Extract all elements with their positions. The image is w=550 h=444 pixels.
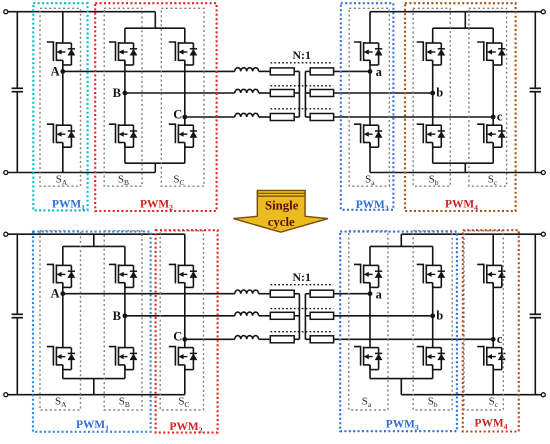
node B (junction dot) (top circuit) [123, 91, 128, 96]
wire: primary winding to primary star point (top circuit) [294, 116, 299, 118]
node C (junction dot) (top circuit) [182, 115, 187, 120]
wire: leg a (top circuit) [369, 12, 371, 43]
dashed box PWM4 group (top circuit) [405, 3, 516, 211]
wire: leg A (top circuit) [62, 12, 64, 43]
capacitor: left DC-link C (bottom circuit) [16, 234, 18, 314]
wire: secondary star point to secondary winding (top circuit) [305, 92, 310, 94]
coupling dotted line phase B (bottom circuit) [271, 308, 334, 310]
terminal: left DC- (bottom circuit) [4, 393, 8, 397]
transformer primary winding phase C (bottom circuit) [270, 336, 294, 343]
wire: DC- rail left (top circuit) [8, 172, 156, 174]
svg-text:A: A [51, 287, 60, 301]
node A (junction dot) (bottom circuit) [60, 291, 65, 296]
inductor: phase C series L (top circuit) [235, 113, 259, 117]
MOSFET S_c upper with body diode (bottom circuit) [477, 264, 506, 287]
wire: secondary star point to secondary winding (bottom circuit) [305, 338, 310, 340]
inductor: phase B series L (bottom circuit) [235, 312, 259, 316]
MOSFET S_b upper with body diode (bottom circuit) [417, 264, 446, 287]
transformer secondary winding phase c (bottom circuit) [310, 336, 333, 343]
svg-text:B: B [113, 86, 121, 100]
MOSFET S_a upper with body diode (bottom circuit) [354, 264, 383, 287]
wire: primary star point (top circuit) [298, 71, 300, 117]
svg-text:a: a [376, 65, 383, 79]
transformer secondary winding phase a (top circuit) [310, 68, 333, 75]
dashed box switch pair S_b (bottom circuit) [413, 231, 452, 410]
MOSFET S_B lower with body diode (top circuit) [109, 124, 137, 147]
MOSFET S_A lower with body diode (bottom circuit) [47, 347, 76, 370]
wire: phase A from node to inductor (bottom circuit) [63, 293, 235, 295]
wire: leg b (bottom circuit) [432, 246, 434, 265]
wire: primary winding to primary star point (bottom circuit) [294, 338, 299, 340]
wire: leg B (top circuit) [124, 28, 126, 43]
wire: legs b-c top join (top circuit) [433, 27, 494, 29]
dashed box PWM3 group (top circuit) [341, 3, 394, 210]
coupling dotted line phase C (top circuit) [271, 108, 334, 110]
wire: legs b-c bottom join (top circuit) [433, 162, 494, 164]
svg-text:Single: Single [265, 199, 299, 213]
wire: inductor to primary winding (bottom circuit) [259, 338, 271, 340]
capacitor: left DC-link C (top circuit) [16, 12, 18, 89]
transformer secondary winding phase b (top circuit) [310, 90, 333, 97]
terminal: right DC- (top circuit) [541, 171, 545, 175]
capacitor: right DC-link C (bottom circuit) [534, 234, 536, 314]
wire: secondary winding to node a (top circuit) [334, 70, 370, 72]
dashed box switch pair S_C (top circuit) [161, 8, 204, 186]
wire: DC+ rail left (bottom circuit) [8, 233, 185, 235]
svg-text:PWM2: PWM2 [169, 421, 202, 435]
node b (junction dot) (top circuit) [430, 91, 435, 96]
wire: secondary winding to node c (bottom circuit) [334, 338, 494, 340]
svg-text:PWM1: PWM1 [76, 419, 109, 433]
dashed box switch pair S_a (top circuit) [349, 8, 389, 186]
MOSFET S_C upper with body diode (bottom circuit) [169, 264, 198, 287]
MOSFET S_B upper with body diode (bottom circuit) [109, 264, 137, 287]
svg-text:a: a [376, 288, 383, 302]
MOSFET S_a lower with body diode (bottom circuit) [354, 347, 383, 370]
wire: leg A (bottom circuit) [62, 246, 64, 265]
MOSFET S_C lower with body diode (bottom circuit) [169, 347, 198, 370]
dashed box PWM2 group (bottom circuit) [156, 230, 218, 432]
wire: secondary winding to node b (bottom circuit) [334, 315, 433, 317]
node a (junction dot) (bottom circuit) [368, 291, 373, 296]
coupling dotted line phase B (top circuit) [271, 85, 334, 87]
svg-text:B: B [113, 309, 121, 323]
inductor: phase C series L (bottom circuit) [235, 336, 259, 340]
wire: legs A-B top join (bottom circuit) [63, 245, 125, 247]
wire: primary winding to primary star point (top circuit) [294, 92, 299, 94]
wire: leg C (bottom circuit) [184, 234, 186, 265]
svg-text:c: c [497, 332, 503, 346]
transformer primary winding phase A (bottom circuit) [270, 290, 294, 297]
wire: phase B from node to inductor (top circuit) [125, 92, 235, 94]
dashed box PWM1 group (bottom circuit) [33, 232, 151, 432]
dashed box PWM1 group (top circuit) [33, 3, 87, 210]
MOSFET S_A lower with body diode (top circuit) [47, 124, 76, 147]
dashed box switch pair S_C (bottom circuit) [160, 231, 203, 410]
wire: inductor to primary winding (top circuit) [259, 116, 271, 118]
wire: inductor to primary winding (bottom circuit) [259, 293, 271, 295]
transformer secondary winding phase c (top circuit) [310, 114, 333, 121]
svg-text:b: b [436, 86, 443, 100]
node c (junction dot) (bottom circuit) [491, 337, 496, 342]
MOSFET S_a upper with body diode (top circuit) [354, 42, 383, 65]
dashed box PWM2 group (top circuit) [95, 3, 216, 211]
dashed box switch pair S_A (top circuit) [40, 8, 81, 186]
node B (junction dot) (bottom circuit) [123, 313, 128, 318]
transformer primary winding phase B (top circuit) [270, 90, 294, 97]
coupling dotted line phase A (top circuit) [271, 62, 334, 64]
wire: secondary star point to secondary winding (top circuit) [305, 70, 310, 72]
wire: secondary star point (top circuit) [304, 71, 306, 117]
arrow header line 1 [257, 192, 305, 194]
dashed box switch pair S_c (top circuit) [469, 8, 507, 186]
svg-text:PWM4: PWM4 [445, 198, 478, 212]
dashed box PWM4 group (bottom circuit) [463, 230, 519, 431]
terminal: right DC+ (top circuit) [541, 10, 545, 14]
MOSFET S_c lower with body diode (bottom circuit) [477, 347, 506, 370]
svg-text:cycle: cycle [268, 215, 295, 229]
node b (junction dot) (bottom circuit) [430, 313, 435, 318]
terminal: right DC- (bottom circuit) [541, 393, 545, 397]
terminal: left DC- (top circuit) [4, 171, 8, 175]
wire: inductor to primary winding (top circuit) [259, 70, 271, 72]
wire: leg c (bottom circuit) [492, 234, 494, 265]
svg-text:c: c [497, 110, 503, 124]
wire: secondary star point to secondary winding (bottom circuit) [305, 315, 310, 317]
svg-text:C: C [173, 330, 182, 344]
MOSFET S_B lower with body diode (bottom circuit) [109, 347, 137, 370]
node a (junction dot) (top circuit) [368, 69, 373, 74]
wire: legs B-C top join (top circuit) [125, 27, 185, 29]
node A (junction dot) (top circuit) [60, 69, 65, 74]
node c (junction dot) (top circuit) [491, 115, 496, 120]
dashed box switch pair S_A (bottom circuit) [40, 231, 81, 410]
wire: secondary winding to node b (top circuit) [334, 92, 433, 94]
wire: secondary winding to node c (top circuit) [334, 116, 494, 118]
wire: secondary star point to secondary winding (bottom circuit) [305, 293, 310, 295]
capacitor: right DC-link C (top circuit) [534, 12, 536, 89]
transformer secondary winding phase a (bottom circuit) [310, 290, 333, 297]
wire: legs B-C bottom join (top circuit) [125, 162, 185, 164]
wire: secondary star point (bottom circuit) [304, 294, 306, 340]
MOSFET S_a lower with body diode (top circuit) [354, 124, 383, 147]
transformer primary winding phase B (bottom circuit) [270, 312, 294, 319]
transformer primary winding phase C (top circuit) [270, 114, 294, 121]
wire: leg b (top circuit) [432, 28, 434, 43]
MOSFET S_c upper with body diode (top circuit) [477, 42, 506, 65]
MOSFET S_A upper with body diode (top circuit) [47, 42, 76, 65]
dashed box switch pair S_B (bottom circuit) [104, 231, 142, 410]
svg-text:b: b [436, 308, 443, 322]
terminal: left DC+ (bottom circuit) [4, 232, 8, 236]
terminal: left DC+ (top circuit) [4, 10, 8, 14]
wire: leg B (bottom circuit) [124, 246, 126, 265]
wire: phase C from node to inductor (top circuit) [185, 116, 235, 118]
wire: phase A from node to inductor (top circuit) [63, 70, 235, 72]
single-cycle arrow symbol [233, 190, 328, 232]
coupling dotted line phase A (bottom circuit) [271, 284, 334, 286]
svg-text:N:1: N:1 [293, 270, 311, 284]
wire: secondary winding to node a (bottom circuit) [334, 293, 370, 295]
svg-text:PWM4: PWM4 [474, 418, 507, 432]
dashed box switch pair S_B (top circuit) [104, 8, 142, 186]
wire: legs a-b top join (bottom circuit) [370, 245, 433, 247]
MOSFET S_b lower with body diode (top circuit) [417, 124, 446, 147]
wire: primary winding to primary star point (top circuit) [294, 70, 299, 72]
wire: phase C from node to inductor (bottom circuit) [185, 338, 235, 340]
wire: secondary star point to secondary winding (top circuit) [305, 116, 310, 118]
wire: DC- rail right (bottom circuit) [401, 394, 541, 396]
wire: DC+ rail left (top circuit) [8, 11, 156, 13]
wire: primary star point (bottom circuit) [298, 294, 300, 340]
wire: legs a-b bottom join (bottom circuit) [370, 378, 433, 380]
MOSFET S_C lower with body diode (top circuit) [169, 124, 198, 147]
wire: leg c (top circuit) [492, 28, 494, 43]
inductor: phase A series L (top circuit) [235, 68, 259, 72]
terminal: right DC+ (bottom circuit) [541, 232, 545, 236]
transformer primary winding phase A (top circuit) [270, 68, 294, 75]
wire: leg C (top circuit) [184, 28, 186, 43]
MOSFET S_b upper with body diode (top circuit) [417, 42, 446, 65]
dashed box switch pair S_c (bottom circuit) [464, 231, 503, 410]
wire: legs A-B bottom join (bottom circuit) [63, 378, 125, 380]
node C (junction dot) (bottom circuit) [182, 337, 187, 342]
svg-text:PWM3: PWM3 [356, 199, 389, 213]
wire: inductor to primary winding (bottom circuit) [259, 315, 271, 317]
wire: phase B from node to inductor (bottom circuit) [125, 315, 235, 317]
wire: inductor to primary winding (top circuit) [259, 92, 271, 94]
svg-text:PWM1: PWM1 [52, 198, 85, 212]
wire: leg a (bottom circuit) [369, 246, 371, 265]
inductor: phase B series L (top circuit) [235, 89, 259, 93]
svg-text:PWM3: PWM3 [386, 419, 419, 433]
svg-text:N:1: N:1 [293, 48, 311, 62]
MOSFET S_B upper with body diode (top circuit) [109, 42, 137, 65]
MOSFET S_b lower with body diode (bottom circuit) [417, 347, 446, 370]
svg-text:C: C [173, 107, 182, 121]
wire: DC+ rail right (bottom circuit) [401, 233, 541, 235]
wire: primary winding to primary star point (bottom circuit) [294, 315, 299, 317]
dashed box PWM3 group (bottom circuit) [340, 232, 457, 432]
MOSFET S_C upper with body diode (top circuit) [169, 42, 198, 65]
dashed box switch pair S_b (top circuit) [413, 8, 450, 186]
coupling dotted line phase C (bottom circuit) [271, 331, 334, 333]
svg-text:PWM2: PWM2 [140, 198, 173, 212]
wire: DC- rail left (bottom circuit) [8, 394, 185, 396]
arrow header line 2 [257, 195, 305, 197]
MOSFET S_A upper with body diode (bottom circuit) [47, 264, 76, 287]
wire: DC+ rail right (top circuit) [370, 11, 541, 13]
svg-text:A: A [51, 64, 60, 78]
wire: primary winding to primary star point (bottom circuit) [294, 293, 299, 295]
MOSFET S_c lower with body diode (top circuit) [477, 124, 506, 147]
transformer secondary winding phase b (bottom circuit) [310, 312, 333, 319]
dashed box switch pair S_a (bottom circuit) [349, 231, 388, 410]
wire: DC- rail right (top circuit) [370, 172, 541, 174]
inductor: phase A series L (bottom circuit) [235, 290, 259, 294]
